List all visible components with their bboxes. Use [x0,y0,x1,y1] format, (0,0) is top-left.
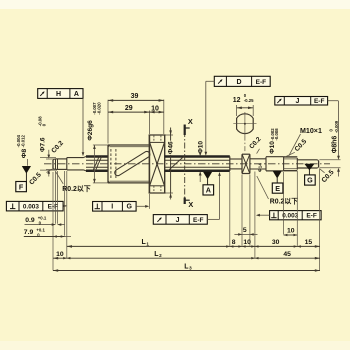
flange bolt holes hidden lines [153,136,155,143]
left end face [52,160,54,169]
svg-text:0.9: 0.9 [25,217,35,224]
svg-text:X: X [188,200,193,209]
svg-text:45: 45 [283,251,291,258]
svg-text:A: A [206,186,211,195]
svg-text:+0.1: +0.1 [38,215,47,220]
svg-text:M10×1: M10×1 [300,127,322,135]
section view centerlines [233,123,256,125]
screw shaft left section (thread OD) [86,155,108,158]
svg-text:7.9: 7.9 [24,229,34,236]
dimension 10 thread length [284,234,298,236]
frame perpendicularity I G [93,202,137,212]
svg-text:5: 5 [243,227,247,234]
svg-text:-0.08: -0.08 [38,116,43,126]
thread undercut section [230,158,242,160]
screw end face [229,156,231,171]
C0.5 leader [47,169,53,173]
svg-text:10: 10 [151,105,159,112]
thread root lines left [86,159,108,161]
shaft center line [44,163,330,165]
phi8 journal outline [67,157,84,159]
dimension phi46 flange OD [165,134,173,136]
C0.2 chamfer into screw [84,157,87,158]
svg-text:Φ10: Φ10 [269,141,276,154]
dimension 0.9 groove width [25,224,56,226]
svg-text:1: 1 [146,241,149,246]
svg-text:3: 3 [189,266,192,271]
svg-text:Φ7.6: Φ7.6 [40,137,47,152]
phi8h6 end journal [297,159,317,161]
frame H A leader [82,98,84,154]
left tip outline phi7.6 [55,158,66,160]
svg-text:2: 2 [159,253,162,258]
C0.5 upper right leader [285,152,295,157]
datum A [203,172,214,195]
svg-text:G: G [126,204,132,211]
svg-text:+0.1: +0.1 [36,227,45,232]
svg-text:-0.008: -0.008 [274,128,279,141]
svg-text:J: J [296,98,300,105]
thread lead slash marks left [93,156,99,171]
dimension 7.9 groove position [24,236,65,238]
R0.2 leader right [257,176,269,199]
frame runout D E-F [214,76,270,86]
frame J E-F lower leader [207,218,219,220]
flange cross (front-view bolt area) [150,143,165,186]
step line [265,157,267,171]
nut body outline phi26g6 [107,145,109,183]
thread root lines right [165,159,230,161]
svg-text:10: 10 [56,251,64,258]
projection line to shaft [244,136,246,152]
R0.2 leader left [56,172,63,184]
svg-text:F: F [19,182,24,191]
svg-text:E: E [275,184,280,193]
svg-text:39: 39 [131,93,139,100]
svg-text:A: A [74,91,79,98]
svg-text:E-F: E-F [314,98,325,105]
left tip chamfers C0.5 [53,158,55,161]
svg-text:29: 29 [125,105,133,112]
flange cap lines [149,141,164,143]
dimension 5 flats length [234,233,242,235]
svg-text:10: 10 [287,227,295,234]
frame perpendicularity 0.003 E-F left [6,201,63,211]
svg-text:30: 30 [272,239,280,246]
datum G [304,164,314,171]
svg-text:Φ8h6: Φ8h6 [332,136,339,154]
svg-text:X: X [188,117,193,126]
phi8 datum dimension line [27,159,29,166]
dimension row L1 8 10 30 15 [67,245,320,247]
svg-text:Φ46: Φ46 [168,141,175,154]
frame J E-F upper leader [328,100,339,102]
frame perpendicularity 0.003 E-F right [270,211,322,220]
C0.5 lower right leader [319,169,324,173]
svg-text:12: 12 [233,97,241,104]
frame runout H A [38,89,83,99]
flat indication cross [242,155,250,174]
dimension 29 / 10 nut body and flange [148,111,150,135]
thread lead slash right [168,157,183,171]
svg-text:0.003: 0.003 [23,204,39,211]
svg-text:-0.012: -0.012 [21,135,26,148]
section line X-X [184,131,186,200]
svg-text:Φ26g6: Φ26g6 [87,120,94,141]
ball return slot in nut [115,151,150,175]
svg-text:H: H [56,91,61,98]
dimension row L3 [53,270,320,272]
svg-text:Φ10: Φ10 [198,141,205,154]
phi10 bearing journal [266,156,284,158]
svg-text:J: J [176,217,180,224]
datum F [16,166,31,192]
svg-text:15: 15 [305,239,313,246]
svg-text:E-F: E-F [306,213,317,220]
small journal after flats [250,158,266,160]
right end chamfers C0.5 [317,159,318,162]
frame I G leader [136,205,148,207]
right end face [318,161,320,167]
phi7.6 dimension arrows [48,150,50,158]
phi26g6 dimension line [93,144,108,146]
dimension 12 across flats [236,105,238,116]
svg-text:8: 8 [232,239,236,246]
datum E [272,171,283,193]
dimension row 10 L2 45 [53,257,320,259]
svg-text:Φ8: Φ8 [21,149,28,159]
svg-text:-0.25: -0.25 [244,98,254,103]
svg-text:Φ14: Φ14 [257,163,262,172]
frame runout J E-F upper [275,97,328,106]
svg-text:E-F: E-F [256,79,267,86]
extension lines to dimension rows [52,172,54,271]
svg-text:0.003: 0.003 [282,213,298,220]
nut flange phi46 [148,135,150,193]
phi8h6 dimension line [319,159,340,161]
dimension 39 nut length [107,100,109,144]
nut hidden groove (dashed) [110,149,112,179]
frame D E-F leader [206,80,215,82]
frame 0.003 E-F left leader [63,205,65,207]
frame 0.003 E-F right leader [257,214,269,216]
step after thread [296,158,298,170]
relief groove 0.9 wide [55,159,57,170]
screw shaft right section (thread OD) [165,155,230,158]
svg-text:R0.2以下: R0.2以下 [270,198,298,206]
svg-text:G: G [307,176,313,185]
M10x1 thread section [283,157,285,171]
svg-text:10: 10 [243,239,251,246]
phi8/phi7.6 extension lines [40,156,56,158]
svg-text:-0.020: -0.020 [97,102,102,115]
nut body chamfer lines [110,146,149,148]
section X-X view circle phi14 with flats [237,114,254,134]
svg-text:D: D [236,79,241,86]
svg-text:I: I [111,204,113,211]
frame runout J E-F lower [153,215,207,225]
svg-text:E-F: E-F [193,217,204,224]
flat section block (12 across flats) [241,154,243,173]
step at end of phi8 journal [66,158,68,170]
M10x1 leader [289,134,301,156]
